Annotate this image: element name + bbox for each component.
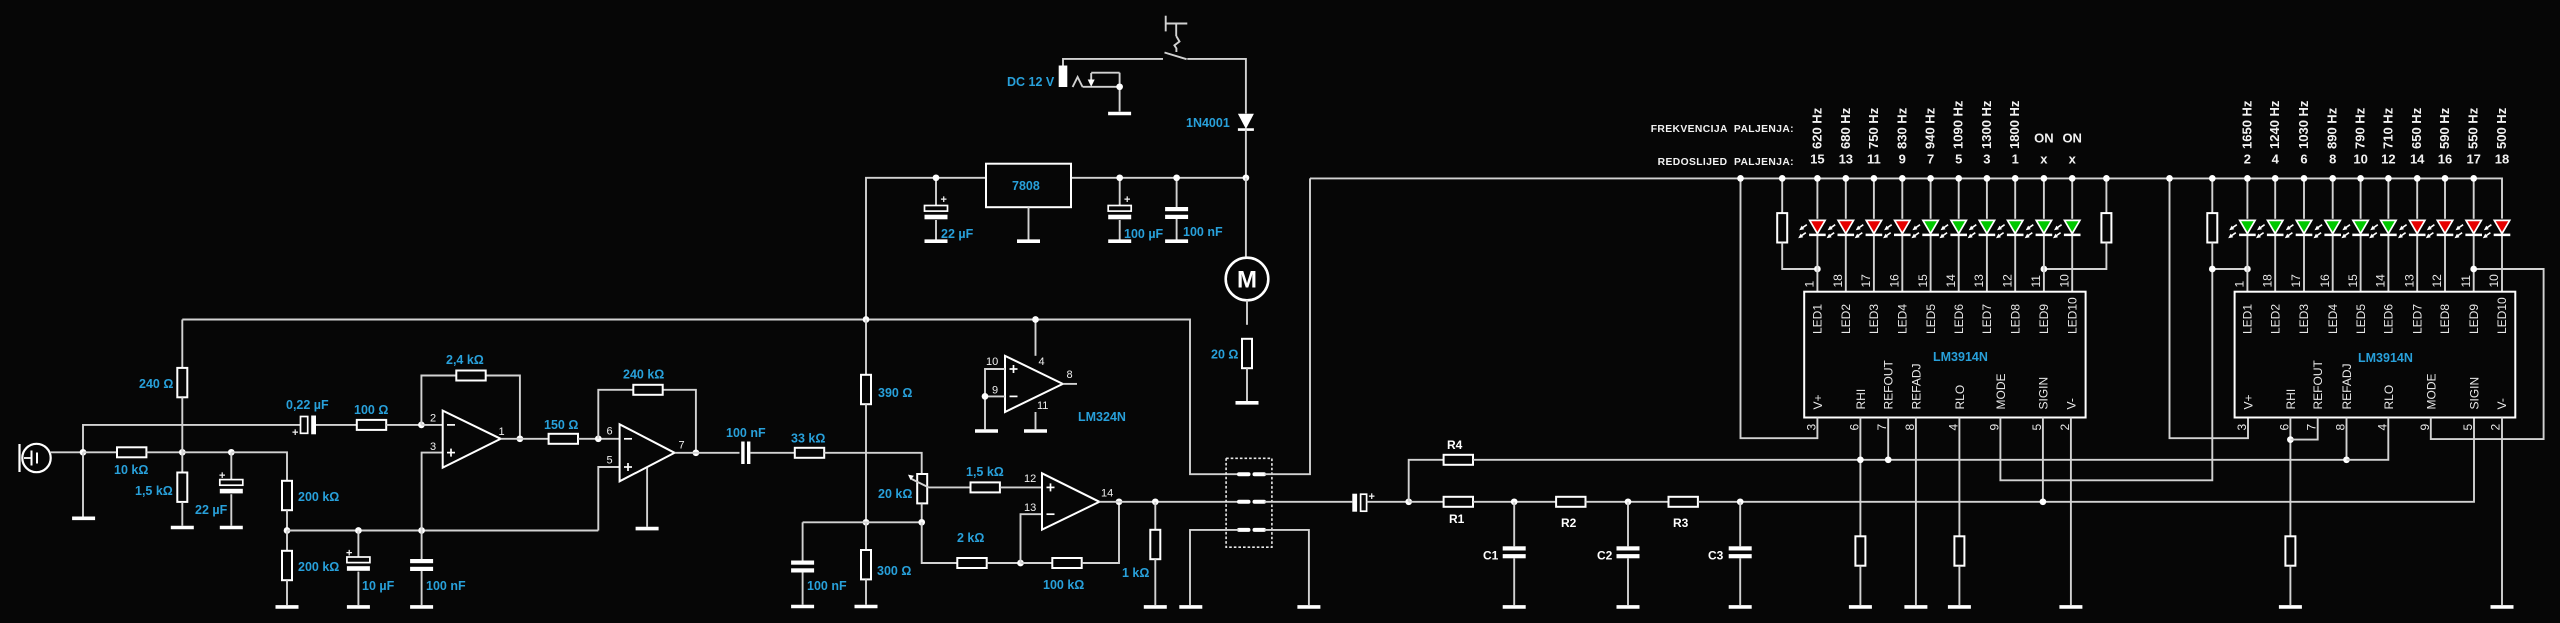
svg-text:240 kΩ: 240 kΩ [623,368,664,382]
svg-text:0,22 µF: 0,22 µF [286,398,329,412]
svg-text:RLO: RLO [1953,385,1967,410]
svg-text:2,4 kΩ: 2,4 kΩ [446,353,484,367]
svg-text:100 Ω: 100 Ω [354,403,388,417]
resistor 2 kOhm [957,558,986,568]
wire chip2 pin8 REFADJ [2346,418,2348,460]
LEDs array1 columns [1817,178,2072,291]
wire connector row3 right to ground [1265,530,1309,605]
wire pin5 riser [598,467,619,531]
svg-text:650 Hz: 650 Hz [2409,107,2424,149]
resistor R2 [1556,497,1585,507]
svg-text:22 µF: 22 µF [941,227,974,241]
LED D8 [1996,220,2024,238]
wire OA4 inputs tie [985,369,1005,429]
feedback loop OA1 [421,376,456,425]
LED D13 [2285,220,2313,238]
svg-text:LED9: LED9 [2467,304,2481,334]
svg-text:ON: ON [2034,131,2054,146]
LED D20 [2483,220,2511,238]
LEDs array2 columns [2247,178,2502,291]
node A (240R/1k5 junction) [179,449,186,456]
ground (connector left) [1179,606,1202,608]
svg-text:3: 3 [430,441,436,453]
LED D10 [2053,220,2081,238]
svg-text:MODE: MODE [1994,374,2008,410]
node pin7/REF [1885,456,1892,463]
wire cap to 33k [750,452,794,454]
wire 200k to bias rail [286,510,288,530]
IC U3 LM3914N box [2235,292,2516,418]
node pin2 junction [418,422,425,429]
ground (REFADJ chip1) [1904,606,1927,608]
resistor 240 kOhm [633,385,662,395]
svg-text:+: + [346,548,352,560]
svg-text:1800 Hz: 1800 Hz [2007,100,2022,149]
ground (OA4 inputs) [975,430,998,432]
svg-text:8: 8 [1067,369,1073,381]
resistor RL3 (array2 left / MODE1) [2207,178,2247,269]
svg-text:11: 11 [2029,275,2043,288]
ground (connector right) [1297,606,1320,608]
svg-text:18: 18 [1831,274,1845,288]
svg-text:LED5: LED5 [2354,304,2368,334]
svg-text:12: 12 [2000,274,2014,288]
svg-text:RHI: RHI [2284,389,2298,410]
LED D2 [1827,220,1855,238]
svg-text:20 kΩ: 20 kΩ [878,487,912,501]
LED D15 [2341,220,2369,238]
svg-text:REDOSLIJED PALJENJA:: REDOSLIJED PALJENJA: [1658,157,1794,168]
svg-text:SIGIN: SIGIN [2036,377,2050,410]
svg-text:R4: R4 [1447,438,1463,452]
resistor R1 [1444,497,1473,507]
LED D11 [2228,220,2256,238]
svg-text:6: 6 [1847,424,1861,431]
wire 150R to pin6 node [578,438,620,440]
capacitor 100 nF (bias) [410,531,433,606]
LED D14 [2314,220,2342,238]
resistor R3 [1669,497,1698,507]
svg-text:10: 10 [986,356,998,368]
wire connector row2 left handled above; row2 right to cap [1265,501,1353,503]
svg-text:2: 2 [430,413,436,425]
rail nodes array1 [1814,175,2075,182]
node 100nF tap [1173,174,1180,181]
svg-text:1: 1 [2233,281,2247,288]
LED D16 [2369,220,2397,238]
svg-text:150 Ω: 150 Ω [544,418,578,432]
wire pin3 riser [422,453,443,531]
resistor RL2 (array1 right) [2044,178,2111,269]
wire 1k5 to pin12 [1000,486,1042,488]
resistor 150 Ohm [549,434,578,444]
svg-text:LED6: LED6 [1952,304,1966,334]
node array2 LED9 cathode [2470,266,2477,273]
node RL1 to LED1 cathode [1814,266,1821,273]
svg-text:8: 8 [2329,152,2336,167]
svg-text:2: 2 [2058,424,2072,431]
wire OA4 pin4 [1035,320,1037,356]
op-amp U1B [620,424,675,481]
node OA1 output [517,435,524,442]
resistor (RHI chip2) [2285,536,2295,565]
freq labels row (array2) [2239,100,2509,149]
svg-text:2: 2 [2489,424,2503,431]
svg-text:LED3: LED3 [2297,304,2311,334]
resistor 1,5 kOhm (mid) [971,482,1000,492]
svg-text:100 kΩ: 100 kΩ [1043,578,1084,592]
wire mic junction down to ground [82,452,84,516]
diode 1N4001 [1238,114,1254,178]
node mic junction [80,449,87,456]
svg-text:LED1: LED1 [1811,304,1825,334]
svg-text:C2: C2 [1597,549,1613,563]
ground (mic) [72,517,95,519]
svg-text:+: + [941,194,947,206]
svg-text:16: 16 [2318,274,2332,288]
svg-text:240 Ω: 240 Ω [139,377,173,391]
wire connector row3 left to ground [1190,530,1239,605]
svg-text:17: 17 [2289,274,2303,288]
svg-text:+: + [219,470,225,482]
wire bias mid rail [803,521,922,523]
svg-text:1: 1 [1803,281,1817,288]
svg-text:940 Hz: 940 Hz [1923,107,1938,149]
node OA4 pin9 [982,393,989,400]
ground (1k5) [171,527,194,529]
capacitor 100 nF (mid) [791,522,814,604]
bias rail wire [287,530,598,532]
LED D18 [2426,220,2454,238]
capacitor electrolytic (series, signal) [1352,491,1375,512]
chip1 LED pin labels [1811,297,2080,334]
LED D19 [2455,220,2483,238]
svg-text:1030 Hz: 1030 Hz [2296,100,2311,149]
svg-text:13: 13 [2402,274,2416,288]
ground (V- chip1) [2059,606,2082,608]
resistor 33 kOhm [795,448,824,458]
svg-text:100 nF: 100 nF [807,579,847,593]
svg-text:17: 17 [1859,274,1873,288]
LED D12 [2256,220,2284,238]
svg-text:LED10: LED10 [2065,297,2079,334]
wire 10k to node A [146,451,182,453]
DC jack J1 [1059,66,1120,112]
svg-text:390 Ω: 390 Ω [878,386,912,400]
svg-text:5: 5 [607,455,613,467]
wire fb node to pin13 [1021,514,1043,563]
svg-text:x: x [2069,152,2077,167]
resistor 2,4 kOhm [456,371,485,381]
svg-text:LED7: LED7 [1980,304,1994,334]
resistor (RLO chip1) [1954,536,1964,565]
svg-text:10 kΩ: 10 kΩ [114,463,148,477]
regulator 7808 [986,164,1071,208]
svg-text:500 Hz: 500 Hz [2494,107,2509,149]
node pin6 junction [595,435,602,442]
svg-text:14: 14 [2374,274,2388,288]
node 1k tap [1152,498,1159,505]
svg-text:1,5 kΩ: 1,5 kΩ [135,484,173,498]
wire chip1 pin9 MODE [2000,269,2212,480]
LED D9 [2025,220,2052,238]
wire LED +8V rail [1310,178,2502,218]
svg-text:REFOUT: REFOUT [1882,360,1896,410]
LED D6 [1940,220,1968,238]
wire signal line R2-R3 [1586,501,1669,503]
svg-text:15: 15 [1810,152,1824,167]
wire +12V rail (7808 input row) [866,178,986,320]
svg-text:2: 2 [2244,152,2251,167]
wire mic output [51,425,301,452]
svg-text:4: 4 [2375,424,2389,431]
wire switch to diode [1187,59,1246,114]
svg-text:200 kΩ: 200 kΩ [298,560,339,574]
connector pins row1 [1239,474,1264,530]
svg-text:200 kΩ: 200 kΩ [298,490,339,504]
ground (RLO chip1) [1948,606,1971,608]
svg-text:790 Hz: 790 Hz [2353,107,2368,149]
freq labels row (array1) [1809,100,2082,149]
svg-text:V+: V+ [1811,394,1825,409]
ground (7808) [1017,240,1040,242]
connector CN1 (dashed) [1226,458,1272,547]
node array2 LED1 cathode [2244,266,2251,273]
wire R4 branch [1409,460,1444,502]
ground (1k) [1144,606,1167,608]
wire +8V rail [182,320,1238,475]
LED D5 [1911,220,1939,238]
svg-text:M: M [1237,267,1257,294]
capacitor C3 [1729,502,1752,605]
svg-text:18: 18 [2260,274,2274,288]
svg-text:10: 10 [2057,274,2071,288]
svg-text:LM324N: LM324N [1078,410,1126,424]
chip2 V+ riser [2170,178,2249,438]
wire R4 to chip1 RHI (REF line) [1473,459,2347,461]
ground (10uF) [347,606,370,608]
capacitor C1 [1503,502,1526,605]
motor M1 [1226,258,1269,301]
node jack sleeve junction [1116,83,1123,90]
svg-text:100 µF: 100 µF [1124,227,1164,241]
svg-text:9: 9 [2418,424,2432,431]
LED D4 [1883,220,1911,238]
ground (22uF left) [220,527,243,529]
svg-text:RHI: RHI [1854,389,1868,410]
chip2 bottom pin labels [2242,360,2510,410]
svg-text:V-: V- [2064,398,2078,409]
wire connector row1 right to LED rail riser [1265,178,1311,474]
svg-text:10: 10 [2353,152,2367,167]
svg-text:3: 3 [1804,424,1818,431]
wire chip1 pin7 REFOUT [1887,418,1889,460]
svg-text:ON: ON [2062,131,2082,146]
wire chip1 pin6 RHI [1859,418,1861,537]
switch S1 [1165,16,1188,60]
svg-text:7: 7 [2305,424,2319,431]
svg-text:1N4001: 1N4001 [1186,116,1230,130]
wire OA2 out to series cap [675,452,740,454]
svg-text:550 Hz: 550 Hz [2466,107,2481,149]
svg-text:18: 18 [2495,152,2509,167]
wire chip2 pin9 MODE to LED9 [2431,269,2544,439]
wire R1 input [1409,501,1444,503]
svg-text:R2: R2 [1561,516,1577,530]
svg-text:12: 12 [2430,274,2444,288]
wire chip1 pin8 REFADJ to ground [1915,418,1917,606]
wire chip2 pin6 RHI [2289,418,2291,537]
svg-text:R3: R3 [1673,516,1689,530]
ground (20ohm) [1236,402,1259,404]
wire chip1 pin4 RLO [1958,418,1960,537]
svg-text:3: 3 [1983,152,1990,167]
chip2 top pin numbers [2233,274,2502,288]
wire OA1 out to 150R [501,438,549,440]
ground (100nF mid) [791,606,814,608]
node 10uF tap [355,527,362,534]
node C1 [1511,498,1518,505]
svg-text:4: 4 [2272,152,2280,167]
svg-text:R1: R1 [1449,512,1465,526]
op-amp U1C (10/9/8) [1005,356,1063,412]
svg-text:6: 6 [2300,152,2307,167]
svg-text:V+: V+ [2242,394,2256,409]
chip2 LED pin labels [2241,297,2510,334]
svg-text:13: 13 [1839,152,1853,167]
svg-text:22 µF: 22 µF [195,503,228,517]
svg-text:5: 5 [2030,424,2044,431]
node 22uF tap (left) [228,449,235,456]
wire OA3 out [1099,501,1238,503]
svg-text:LED3: LED3 [1867,304,1881,334]
svg-text:14: 14 [2410,152,2425,167]
chip1 bottom pin numbers [1804,424,2071,431]
svg-text:LED4: LED4 [1896,304,1910,334]
svg-text:100 nF: 100 nF [726,426,766,440]
svg-text:1240 Hz: 1240 Hz [2267,100,2282,149]
svg-text:8: 8 [1903,424,1917,431]
wire 2k to fb node [987,562,1021,564]
ground (100nF top) [1165,240,1188,242]
svg-text:15: 15 [1916,274,1930,288]
ground (V- chip2) [2491,606,2514,608]
ground (300R) [855,606,878,608]
node 100nF tap (bias) [418,527,425,534]
wire chip2 pin7 tie to pin6 [2290,418,2317,440]
svg-text:5: 5 [2461,424,2475,431]
svg-text:C3: C3 [1708,549,1724,563]
svg-text:20 Ω: 20 Ω [1211,348,1238,362]
svg-text:5: 5 [1955,152,1962,167]
svg-text:830 Hz: 830 Hz [1894,107,1909,149]
node trimmer bottom [918,519,925,526]
capacitor 100 nF (series) [741,442,750,465]
resistor 200 kOhm (lower) [282,531,292,606]
wire chip2 pin2 V- to ground [2501,418,2503,606]
LED D7 [1968,220,1996,238]
trimmer 20 kOhm [908,474,971,522]
wire 7808 gnd pin [1028,207,1030,239]
svg-text:100 nF: 100 nF [1183,225,1223,239]
svg-text:LED8: LED8 [2438,304,2452,334]
svg-text:15: 15 [2346,274,2360,288]
capacitor 0,22 uF [292,416,316,440]
svg-text:6: 6 [2277,424,2291,431]
resistor RL1 (array1 left) [1777,178,1817,269]
wire trimmer to 2k [922,522,958,563]
wire motor to 20ohm [1246,300,1248,325]
capacitor 100uF [1108,178,1131,240]
wire 20ohm to gnd [1246,368,1248,401]
svg-text:x: x [2040,152,2048,167]
chip1 V+ riser [1741,178,1818,438]
node 100uF tap [1116,174,1123,181]
resistor 100 kOhm [1021,502,1120,568]
svg-text:710 Hz: 710 Hz [2380,107,2395,149]
op-amp U1A [443,411,501,468]
svg-text:16: 16 [1888,274,1902,288]
resistor 1,5 kOhm [177,452,187,525]
svg-text:14: 14 [1944,274,1958,288]
ground (RHI chip1) [1849,606,1872,608]
wire signal line R1-R2 [1473,501,1556,503]
node C3 [1737,498,1744,505]
node diode/motor junction [1243,174,1250,181]
svg-text:1: 1 [2012,152,2019,167]
resistor (RHI chip1) [1855,536,1865,565]
ground (100nF bias) [410,606,433,608]
svg-text:1650 Hz: 1650 Hz [2239,100,2254,149]
resistor R4 [1444,455,1473,465]
LED D1 [1798,220,1826,238]
resistor 10 kOhm [117,447,146,457]
svg-text:620 Hz: 620 Hz [1809,107,1824,149]
svg-text:1 kΩ: 1 kΩ [1122,566,1149,580]
svg-text:9: 9 [1987,424,2001,431]
svg-text:REFADJ: REFADJ [1909,363,1923,409]
order labels row (array1) [1810,152,2076,167]
node RL3 bottom [2209,266,2216,273]
wire pin2 [421,424,442,426]
wire node A to 22uF node [182,451,231,453]
node C2 [1625,498,1632,505]
svg-text:13: 13 [1024,502,1036,514]
wire chip2 pin4 RLO to REF line [2347,418,2389,460]
node bias mid [863,519,870,526]
LED D3 [1855,220,1883,238]
ground (C1) [1503,606,1526,608]
svg-text:LM3914N: LM3914N [2358,351,2413,365]
resistor 20 Ohm [1242,339,1252,368]
node R4/R1 split [1405,498,1412,505]
wire jack to switch [1063,59,1163,66]
wire cap to R1 node [1367,501,1409,503]
resistor 1 kOhm [1150,502,1160,605]
ground (OA2) [636,528,659,530]
microphone MIC1 [20,444,51,472]
svg-text:7: 7 [679,440,685,452]
svg-text:LED7: LED7 [2410,304,2424,334]
wire mic row to 10k [83,451,117,453]
svg-text:1: 1 [499,426,505,438]
ground (100uF) [1108,240,1131,242]
ground (200k) [276,606,299,608]
svg-text:1300 Hz: 1300 Hz [1979,100,1994,149]
svg-text:LED5: LED5 [1924,304,1938,334]
resistor 390 Ohm [861,320,871,523]
svg-text:590 Hz: 590 Hz [2437,107,2452,149]
